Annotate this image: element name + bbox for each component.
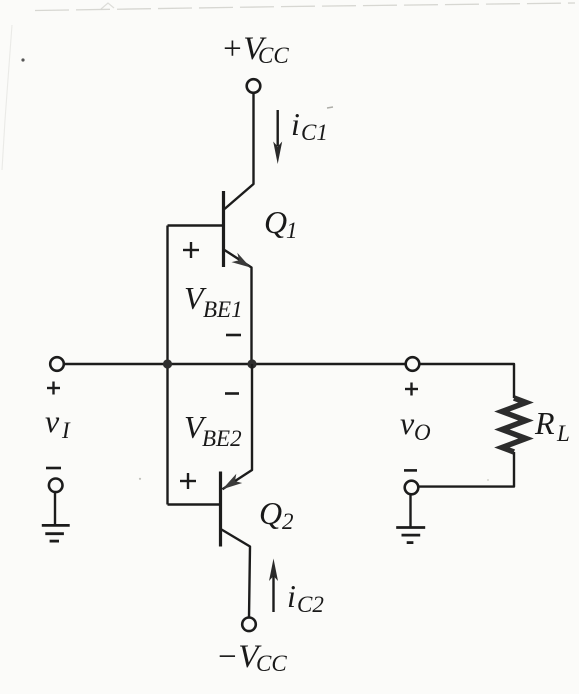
plus sign VBE1 [183, 242, 199, 258]
transistor Q1 (npn) base bar [222, 191, 225, 267]
resistor RL [502, 398, 526, 452]
svg-text:C2: C2 [297, 592, 324, 617]
label Q1 [264, 204, 298, 243]
svg-text:R: R [534, 405, 555, 441]
svg-text:CC: CC [256, 651, 287, 676]
svg-text:BE1: BE1 [203, 297, 243, 322]
svg-text:L: L [556, 421, 570, 446]
label VBE2 [184, 409, 242, 451]
wire: output to RL [420, 364, 515, 398]
plus sign VBE2 [180, 473, 196, 489]
svg-text:Q: Q [259, 495, 282, 531]
wire: right rail (node to Q2 emitter) [222, 364, 252, 489]
transistor Q1 emitter [225, 250, 252, 364]
label iC1 [291, 106, 328, 145]
plus sign vO [405, 383, 418, 396]
junction node right [247, 359, 256, 368]
output terminal [406, 357, 420, 371]
label vI [45, 403, 71, 443]
transistor Q2 (pnp) base bar [219, 472, 222, 547]
label RL [534, 405, 570, 446]
input lower terminal [49, 479, 63, 493]
wire: +VCC terminal to Q1 collector [225, 93, 254, 209]
scan artifact: speck below vI area [139, 478, 141, 480]
arrow iC1 (downward) [273, 110, 282, 164]
label Q2 [259, 495, 294, 534]
scan artifact: faint left edge scratch [2, 25, 12, 170]
label vO [400, 405, 431, 445]
ground (input) [42, 492, 70, 541]
svg-text:i: i [287, 578, 296, 614]
scan artifact: faint top edge line [35, 3, 575, 11]
minus sign VBE1 [226, 334, 241, 337]
arrow iC2 (upward) [269, 559, 278, 613]
plus sign vI [47, 382, 60, 395]
wire: left rail to Q2 base [168, 503, 221, 505]
wire: Q1 base to left rail [168, 224, 224, 226]
label -VCC [216, 639, 287, 676]
svg-text:2: 2 [282, 509, 294, 534]
transistor Q1 emitter arrowhead [232, 253, 251, 268]
input terminal [50, 357, 64, 371]
wire: input to output node [64, 363, 406, 365]
wire: lower terminal to RL bottom [419, 452, 515, 487]
terminal +VCC [247, 79, 261, 93]
minus sign vO [404, 469, 417, 472]
transistor Q2 collector [222, 530, 251, 618]
svg-text:1: 1 [286, 218, 298, 243]
scan artifact: small dot [21, 58, 24, 61]
minus sign vI [46, 467, 61, 470]
label iC2 [287, 578, 324, 617]
scan artifact: speck right of iC1 [327, 107, 333, 108]
minus sign VBE2 [225, 392, 239, 395]
scan artifact: speck near resistor [487, 479, 489, 481]
svg-text:Q: Q [264, 204, 287, 240]
svg-text:I: I [61, 418, 71, 443]
svg-text:v: v [400, 405, 415, 441]
wire: left rail vertical [166, 226, 168, 505]
svg-text:i: i [291, 106, 300, 142]
label +VCC [221, 31, 289, 68]
terminal -VCC [242, 618, 256, 632]
junction node left [163, 359, 172, 368]
label VBE1 [184, 280, 243, 322]
svg-text:BE2: BE2 [202, 426, 242, 451]
transistor Q2 emitter arrowhead [222, 474, 242, 489]
svg-text:v: v [45, 403, 60, 439]
svg-text:CC: CC [258, 43, 289, 68]
ground (output) [396, 494, 425, 542]
svg-text:C1: C1 [301, 120, 328, 145]
svg-text:O: O [414, 420, 431, 445]
output lower terminal [405, 481, 419, 495]
